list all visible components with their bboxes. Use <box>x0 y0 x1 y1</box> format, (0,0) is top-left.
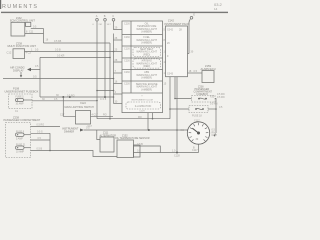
svg-text:(RED): (RED) <box>143 65 150 68</box>
svg-text:C: C <box>112 14 114 18</box>
svg-text:FUSE 18: FUSE 18 <box>192 114 202 117</box>
svg-text:Z142: Z142 <box>168 18 174 22</box>
ladder right-side pin labels <box>164 28 167 85</box>
svg-text:(AMBER): (AMBER) <box>141 42 152 45</box>
gauge bottom wire <box>198 144 200 152</box>
left fusebox wires <box>31 126 61 128</box>
vertical link x110 <box>109 43 111 119</box>
wire pack to alarm ecu <box>188 72 203 74</box>
passenger compartment fusebox (left) header <box>4 115 41 122</box>
fuse glyph right F1 <box>198 98 207 100</box>
wire vertical jog <box>43 29 45 44</box>
fuse glyph right F2 <box>195 108 204 110</box>
wire dimmer to gauge <box>84 129 188 131</box>
power feed B <box>101 14 110 97</box>
wire ECM pin stub <box>25 33 44 35</box>
wire bus right of fusebox <box>49 133 51 150</box>
svg-text:C12: C12 <box>7 50 12 54</box>
main lighting switch box <box>76 111 91 125</box>
ladder row texts <box>136 22 158 91</box>
svg-text:0.5 B: 0.5 B <box>37 148 43 151</box>
svg-text:C 0.5: C 0.5 <box>100 97 107 101</box>
svg-text:0.5: 0.5 <box>194 70 198 73</box>
svg-text:C230: C230 <box>124 83 130 86</box>
alarm ECU box <box>202 71 214 83</box>
svg-text:C230: C230 <box>124 48 130 51</box>
alternator box <box>100 137 114 152</box>
multi function unit header <box>8 41 37 48</box>
svg-text:0.5 KB: 0.5 KB <box>54 40 62 43</box>
wire ECM top run <box>31 28 44 30</box>
paper background <box>0 0 230 163</box>
ECM connector box <box>26 22 31 26</box>
row dividers <box>122 34 163 36</box>
under bonnet fusebox (dashed) <box>9 94 33 109</box>
svg-text:C230: C230 <box>124 23 130 26</box>
wire row 4 <box>40 56 110 58</box>
pin column divider <box>130 21 132 93</box>
svg-text:MULTI FUNCTION UNIT: MULTI FUNCTION UNIT <box>8 44 37 48</box>
drop from dimmer wire to alternator box <box>97 130 100 140</box>
svg-text:0.5: 0.5 <box>86 126 90 129</box>
svg-text:INSTRUMENT PACK: INSTRUMENT PACK <box>165 22 190 26</box>
drop from ladder illumination to lighting wire <box>152 113 154 119</box>
needle <box>192 128 198 133</box>
wire y90 <box>97 90 114 92</box>
svg-text:0.5: 0.5 <box>33 75 37 79</box>
svg-text:C117: C117 <box>194 120 200 123</box>
svg-text:0.5 RO: 0.5 RO <box>67 94 75 97</box>
long wire under ladder <box>97 118 170 120</box>
passenger compartment fusebox (right) header <box>194 85 213 96</box>
dashed dim module inside bottom cell <box>126 102 161 109</box>
svg-text:(AMBER): (AMBER) <box>141 31 152 34</box>
svg-text:0.5 RN: 0.5 RN <box>210 102 218 105</box>
svg-text:RO: RO <box>103 113 107 116</box>
left fusebox (dashed) <box>6 123 31 158</box>
instrument pack box <box>166 26 188 77</box>
svg-text:(AMBER): (AMBER) <box>141 89 152 92</box>
svg-text:0.5 B: 0.5 B <box>137 143 143 146</box>
svg-text:C230: C230 <box>124 36 130 39</box>
multi function unit U2 <box>13 49 25 59</box>
svg-text:0.5 RN: 0.5 RN <box>217 96 225 99</box>
svg-text:A: A <box>96 14 98 18</box>
svg-text:C230: C230 <box>124 71 130 74</box>
temperature sensor box <box>117 140 134 158</box>
ECM control unit U1 <box>11 22 25 36</box>
wire switch to right <box>91 115 114 117</box>
svg-text:F20: F20 <box>210 96 215 99</box>
svg-text:(RED): (RED) <box>143 54 150 57</box>
svg-text:C117: C117 <box>212 134 218 137</box>
instrument dimmer off-page arrow <box>62 126 90 133</box>
svg-text:B: B <box>104 14 106 18</box>
vertical bus at ladder left <box>113 34 115 104</box>
sensor wires <box>134 146 161 153</box>
svg-text:E: E <box>193 12 195 16</box>
svg-text:C043: C043 <box>167 72 174 75</box>
gauge right labels <box>212 129 218 138</box>
svg-text:C117: C117 <box>192 149 198 152</box>
drop from ladder illumination to dimmer wire <box>147 113 149 130</box>
svg-text:INSTRUMENT ILLUM: INSTRUMENT ILLUM <box>131 99 153 101</box>
arrow into gauge from wire E2 <box>213 133 216 137</box>
sensor connector box <box>134 145 141 157</box>
svg-text:ILLUMINATION: ILLUMINATION <box>135 105 152 108</box>
title rule <box>1 12 228 13</box>
svg-text:MAIN LIGHTING SWITCH: MAIN LIGHTING SWITCH <box>65 106 95 109</box>
power feed C <box>110 14 123 29</box>
wires right fusebox F2 <box>170 108 189 110</box>
svg-text:C042: C042 <box>167 29 174 32</box>
alternator header <box>100 132 117 138</box>
pack drop wires <box>169 77 171 119</box>
power feed A <box>93 14 102 119</box>
instrument pack header <box>165 18 190 25</box>
alarm ECU header <box>201 64 216 71</box>
main lighting switch header <box>65 102 95 109</box>
dashed option box row 4 <box>133 59 161 68</box>
dashed option box row 3 <box>133 47 161 56</box>
ladder row pin numbers <box>124 23 130 86</box>
svg-text:0.5: 0.5 <box>137 150 141 153</box>
svg-text:DIMMER: DIMMER <box>64 130 74 133</box>
wires right fusebox F1 <box>175 98 192 100</box>
down arrow under text <box>20 72 22 76</box>
wire pack to feed E <box>188 53 190 55</box>
gauge (clock) circle <box>187 122 209 144</box>
svg-text:DISPLAY: DISPLAY <box>13 69 24 73</box>
junction wire y97 dot <box>62 96 64 98</box>
wire feed down to switch <box>63 97 75 116</box>
svg-text:PASSENGER COMPARTMENT: PASSENGER COMPARTMENT <box>4 118 41 122</box>
temperature sensor header <box>115 134 150 140</box>
svg-text:(AMBER): (AMBER) <box>141 77 152 80</box>
svg-text:10 AMP: 10 AMP <box>16 150 25 153</box>
wire to ladder bus <box>44 42 111 44</box>
svg-text:RO: RO <box>138 116 142 119</box>
svg-text:0.5 S: 0.5 S <box>37 130 43 133</box>
fuse glyph left F1 <box>16 131 31 140</box>
svg-text:0.5 RO: 0.5 RO <box>37 124 45 127</box>
air conditioning off-page arrow <box>10 66 31 78</box>
fuse glyph left F2 <box>16 144 31 153</box>
instrument pack warning-light ladder (outer box) <box>122 21 163 113</box>
svg-text:14: 14 <box>214 7 218 11</box>
right fusebox fragment F2 (dashed) <box>189 106 208 113</box>
svg-text:0.5 B: 0.5 B <box>55 48 61 51</box>
connector circle E top right <box>189 12 195 53</box>
svg-text:C128: C128 <box>174 155 180 158</box>
wire long row <box>3 78 114 80</box>
scan edge mark <box>0 0 1 9</box>
right fusebox fragment F1 (dashed) <box>192 96 216 103</box>
svg-text:C11: C11 <box>29 31 34 34</box>
fuse glyph underbonnet <box>15 97 32 113</box>
wire from aircon arrow <box>31 57 40 69</box>
tick marks <box>189 123 209 141</box>
svg-text:5 AMP: 5 AMP <box>16 137 23 140</box>
bottom cell: illumination unit <box>131 95 153 112</box>
svg-text:UNDER BONNET FUSEBOX: UNDER BONNET FUSEBOX <box>5 89 39 93</box>
svg-text:X122: X122 <box>80 102 86 105</box>
wire aircon drop to y97 <box>39 70 41 98</box>
wire fusebox out <box>32 100 97 102</box>
under bonnet fusebox header <box>5 87 39 94</box>
svg-text:C229: C229 <box>139 110 145 112</box>
svg-text:10 AMP: 10 AMP <box>16 102 25 105</box>
svg-text:C230: C230 <box>124 59 130 62</box>
wire y97 with junctions <box>40 96 114 98</box>
wire MFU to ladder <box>25 51 114 53</box>
ECM control unit header <box>10 17 35 23</box>
svg-text:0.5 KR: 0.5 KR <box>57 54 65 57</box>
ladder stub wires and labels <box>114 27 123 104</box>
junction dots on feed bus <box>96 51 178 131</box>
